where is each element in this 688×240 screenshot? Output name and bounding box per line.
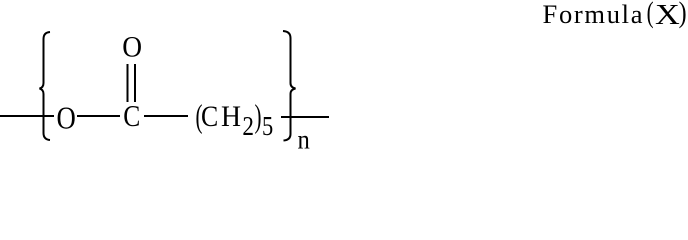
svg-text:O: O — [57, 99, 76, 135]
svg-text:): ) — [679, 0, 687, 29]
svg-text:H: H — [221, 100, 241, 133]
svg-text:O: O — [122, 30, 142, 63]
svg-text:C: C — [201, 100, 218, 133]
svg-text:2: 2 — [242, 111, 254, 141]
svg-text:C: C — [123, 98, 140, 133]
svg-text:5: 5 — [262, 111, 273, 141]
svg-text:): ) — [255, 99, 262, 135]
svg-text:Formula: Formula — [543, 0, 643, 29]
svg-text:X: X — [655, 0, 680, 31]
svg-text:n: n — [298, 124, 311, 149]
svg-text:(: ( — [647, 0, 654, 29]
